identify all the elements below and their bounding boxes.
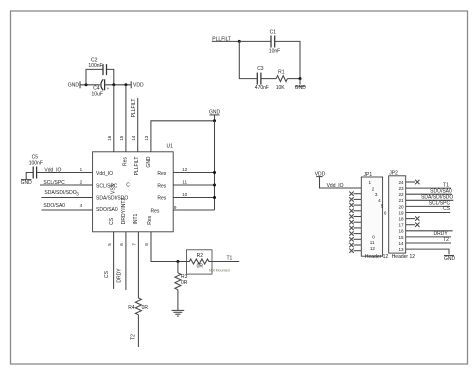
net label SCL/SPC xyxy=(43,180,65,186)
svg-text:5: 5 xyxy=(381,204,384,209)
svg-text:CS: CS xyxy=(104,270,110,278)
wire pin10 xyxy=(173,197,214,199)
svg-text:24: 24 xyxy=(398,180,404,185)
svg-text:U1: U1 xyxy=(167,143,174,149)
node junction PLLFILT xyxy=(238,40,241,43)
power port GND (top middle) xyxy=(209,110,221,121)
svg-text:3: 3 xyxy=(76,192,79,197)
svg-text:Not Mounted: Not Mounted xyxy=(209,269,230,273)
svg-text:T1: T1 xyxy=(443,183,449,189)
pin 2 stub xyxy=(80,180,93,185)
pin 14 number xyxy=(131,135,136,141)
connector JP2 xyxy=(389,170,416,260)
svg-text:9: 9 xyxy=(174,205,177,210)
svg-text:19: 19 xyxy=(398,210,404,215)
svg-text:10: 10 xyxy=(182,192,188,197)
node junction GND tap xyxy=(299,77,302,80)
power port GND (JP2) xyxy=(444,256,456,262)
svg-text:100nF: 100nF xyxy=(29,161,43,167)
wire pin12 xyxy=(173,172,214,174)
node junction pin12 xyxy=(213,171,216,174)
svg-text:SDO/SA0: SDO/SA0 xyxy=(96,207,118,213)
wire net T1 (pin23) xyxy=(406,183,451,189)
svg-text:T2: T2 xyxy=(131,334,137,340)
svg-text:4: 4 xyxy=(80,203,83,208)
wire pin16 drop xyxy=(113,85,115,152)
svg-text:Res: Res xyxy=(150,208,159,214)
op-amp U1 body xyxy=(93,143,174,232)
wire xyxy=(80,84,100,86)
svg-text:SDA/SDI/SDO: SDA/SDI/SDO xyxy=(421,194,453,200)
ground (earth) xyxy=(172,310,185,316)
svg-text:GND: GND xyxy=(444,256,456,262)
svg-text:+: + xyxy=(107,86,110,91)
wire net SCL/SPC xyxy=(40,184,93,186)
svg-text:JP1: JP1 xyxy=(364,172,373,178)
svg-text:VSS: VSS xyxy=(111,183,117,194)
svg-text:R1: R1 xyxy=(278,69,285,75)
svg-text:0: 0 xyxy=(372,235,375,240)
U1 pin name C xyxy=(126,183,130,189)
svg-text:VDD: VDD xyxy=(133,83,144,89)
svg-text:PLLFILT: PLLFILT xyxy=(131,99,137,118)
U1 pin name DRDY/INT2 (bottom) xyxy=(121,198,127,225)
net label CS xyxy=(104,270,110,278)
svg-text:20: 20 xyxy=(398,204,404,209)
capacitor C2 100nF (parallel loop) xyxy=(86,57,114,84)
wire pin11 xyxy=(173,184,214,186)
svg-text:18: 18 xyxy=(398,217,404,222)
svg-text:6: 6 xyxy=(384,210,387,215)
U1 pin name VSS (rotated) xyxy=(111,183,117,194)
node junction R3 tap xyxy=(176,260,179,263)
wire to C1 xyxy=(239,40,271,42)
U1 pin name Res (pin9) xyxy=(150,208,159,214)
svg-text:15: 15 xyxy=(119,135,124,141)
node junction pin10 xyxy=(213,196,216,199)
wire pin15 drop xyxy=(125,85,127,152)
net label T1 xyxy=(226,255,232,261)
wire pin13 to GND rail xyxy=(151,121,215,152)
svg-text:SCL/SPC: SCL/SPC xyxy=(43,180,65,186)
svg-text:GND: GND xyxy=(295,85,307,91)
svg-text:R4: R4 xyxy=(128,305,135,311)
U1 pin name Vdd_IO xyxy=(96,171,113,177)
svg-text:T1: T1 xyxy=(226,255,232,261)
svg-text:C: C xyxy=(126,183,130,189)
svg-text:DRDY: DRDY xyxy=(434,231,449,237)
pin 12 number xyxy=(182,167,188,172)
U1 pin name GND (top) xyxy=(146,156,152,168)
svg-text:Vdd_IO: Vdd_IO xyxy=(44,167,61,173)
capacitor C5 100nF xyxy=(29,154,43,178)
svg-text:CS: CS xyxy=(443,206,451,212)
svg-text:GND: GND xyxy=(68,83,80,89)
pin 3 stub xyxy=(76,192,92,198)
svg-text:Res: Res xyxy=(157,184,166,190)
net label PLLFILT xyxy=(212,36,231,42)
wire net SDO/SA0 xyxy=(41,209,92,211)
pin 8 number xyxy=(144,243,149,246)
svg-text:13: 13 xyxy=(144,135,149,141)
svg-text:1: 1 xyxy=(369,180,372,185)
pin 11 number xyxy=(182,180,187,185)
svg-text:GND: GND xyxy=(21,180,33,186)
svg-text:C1: C1 xyxy=(270,29,277,35)
wire pin13 to GND xyxy=(406,249,449,254)
node junction pin11 xyxy=(213,184,216,187)
svg-text:12: 12 xyxy=(182,167,188,172)
power port GND (PLL) xyxy=(295,79,307,91)
JP2 pin24 stub + X xyxy=(406,180,420,184)
pin 5 number xyxy=(107,243,112,246)
svg-text:DRDY: DRDY xyxy=(117,268,123,283)
svg-text:Res: Res xyxy=(157,171,166,177)
pin 13 number xyxy=(144,135,149,141)
svg-text:0R: 0R xyxy=(197,264,204,270)
svg-text:14: 14 xyxy=(131,135,136,141)
svg-text:8: 8 xyxy=(144,243,149,246)
net label SDO/SA0 xyxy=(43,203,65,209)
power port VDD xyxy=(131,81,144,88)
wire C5 to GND xyxy=(26,173,33,180)
wire R1 to right rail xyxy=(287,78,300,80)
net label T2 xyxy=(131,334,137,340)
wire C3 to R1 xyxy=(261,78,276,80)
svg-text:0R: 0R xyxy=(142,305,149,311)
node junction pin15 tap xyxy=(124,83,127,86)
U1 pin name Res (pin11) xyxy=(157,184,166,190)
svg-text:100nF: 100nF xyxy=(88,63,102,69)
wire net DRDY (pin6) xyxy=(125,232,127,290)
resistor R4 0R xyxy=(128,298,148,315)
JP1 X marks xyxy=(349,192,353,253)
svg-text:10K: 10K xyxy=(276,85,286,91)
svg-text:C3: C3 xyxy=(257,66,264,72)
JP2 pin18 stub + X xyxy=(406,216,420,220)
power port GND (below C5) xyxy=(21,180,33,187)
svg-text:SDO/SA0: SDO/SA0 xyxy=(43,203,65,209)
net label SDA/SDI/SDO xyxy=(44,190,76,196)
svg-text:15: 15 xyxy=(398,235,404,240)
wire down to lower branch xyxy=(239,41,257,78)
svg-text:11: 11 xyxy=(370,240,375,245)
wire R3 to ground xyxy=(177,290,179,311)
pin 9 number xyxy=(174,205,177,210)
svg-text:C5: C5 xyxy=(32,154,39,160)
U1 pin name Res (pin12) xyxy=(157,171,166,177)
svg-text:5: 5 xyxy=(107,243,112,246)
wire xyxy=(105,84,132,86)
svg-text:10nF: 10nF xyxy=(269,49,280,55)
svg-text:14: 14 xyxy=(398,241,404,246)
U1 pin name INT1 (bottom) xyxy=(133,213,139,224)
wire net T2 (pin14) xyxy=(406,237,451,243)
JP1 no-connect stubs pins 2-12 xyxy=(354,194,362,251)
U1 pin name SCL/SPC xyxy=(96,184,118,190)
svg-text:Vdd_IO: Vdd_IO xyxy=(96,171,113,177)
svg-text:GND: GND xyxy=(146,156,152,168)
svg-text:INT1: INT1 xyxy=(133,213,139,224)
wire net SDA/SDI/SDO (pin21) xyxy=(406,194,454,200)
svg-text:470nF: 470nF xyxy=(255,85,269,91)
wire VDD to JP1 pin1 xyxy=(320,177,362,188)
capacitor C4 10uF (polarized) xyxy=(91,79,109,97)
JP2 pin17 stub + X xyxy=(406,223,420,227)
svg-text:CS: CS xyxy=(109,217,115,225)
svg-text:4: 4 xyxy=(378,198,381,203)
power port GND (left of C4) xyxy=(68,81,80,88)
resistor R2 0R (not mounted box) xyxy=(187,250,230,274)
svg-text:Header 12: Header 12 xyxy=(365,254,389,260)
pin 7 number xyxy=(132,243,137,246)
svg-text:10uF: 10uF xyxy=(91,92,102,98)
svg-text:23: 23 xyxy=(398,186,404,191)
node junction left xyxy=(85,83,88,86)
U1 pin name CS (bottom) xyxy=(109,217,115,225)
pin 16 number xyxy=(107,135,112,141)
U1 pin name Res (pin8 bottom) xyxy=(147,215,153,224)
pin 6 number xyxy=(119,243,124,246)
wire pin8 down and right xyxy=(151,232,187,262)
node junction (VDD side) xyxy=(112,83,115,86)
U1 pin name SDO/SA0 xyxy=(96,207,118,213)
svg-text:12: 12 xyxy=(370,246,376,251)
svg-text:SDA/SDI/SDO: SDA/SDI/SDO xyxy=(44,190,76,196)
wire pin14 stub xyxy=(137,98,139,152)
svg-text:11: 11 xyxy=(182,180,187,185)
wire R2 to T1 xyxy=(212,261,239,263)
resistor R3 0R xyxy=(175,262,188,290)
svg-text:6: 6 xyxy=(119,243,124,246)
wire net CS (pin19) xyxy=(406,206,451,212)
wire net SDA/SDI/SDO xyxy=(41,197,92,199)
svg-text:JP2: JP2 xyxy=(389,170,398,176)
svg-text:DRDY/INT2: DRDY/INT2 xyxy=(121,198,127,225)
connector JP1 xyxy=(361,172,388,260)
wire net SCL/SPC (pin20) xyxy=(406,200,451,206)
svg-text:3: 3 xyxy=(375,192,378,197)
wire PLLFILT xyxy=(212,40,239,42)
wire pin7 to R4 xyxy=(137,232,139,298)
wire net Vdd_IO xyxy=(37,172,93,174)
wire GND rail vertical xyxy=(214,121,216,210)
wire net SDO/SA0 (pin22) xyxy=(406,189,452,195)
svg-text:Res: Res xyxy=(157,196,166,202)
svg-text:1: 1 xyxy=(80,167,83,172)
pin 1 stub xyxy=(80,167,93,172)
svg-text:22: 22 xyxy=(398,192,404,197)
svg-text:0R: 0R xyxy=(181,280,188,286)
U1 pin name Res (pin10) xyxy=(157,196,166,202)
pin 4 stub xyxy=(80,203,93,210)
wire pin9 xyxy=(173,209,214,211)
svg-text:7: 7 xyxy=(132,243,137,246)
svg-text:13: 13 xyxy=(398,247,404,252)
svg-text:2: 2 xyxy=(80,180,83,185)
svg-text:Res: Res xyxy=(123,157,129,166)
svg-text:2: 2 xyxy=(372,186,375,191)
svg-text:R2: R2 xyxy=(197,253,204,259)
svg-text:Vdd_IO: Vdd_IO xyxy=(327,183,344,189)
node junction pin13 xyxy=(213,119,216,122)
net label Vdd_IO (JP1) xyxy=(327,183,344,189)
capacitor C1 10nF xyxy=(269,29,280,54)
svg-text:21: 21 xyxy=(398,198,404,203)
wire net CS (pin5) xyxy=(113,232,115,289)
pin 15 number xyxy=(119,135,124,141)
net label PLLFILT (pin14) xyxy=(131,99,137,118)
svg-text:T2: T2 xyxy=(443,237,449,243)
svg-text:PLLFILT: PLLFILT xyxy=(134,157,140,176)
capacitor C3 470nF xyxy=(255,66,269,91)
U1 pin name Res (pin15 top) xyxy=(123,157,129,166)
net label DRDY xyxy=(117,268,123,283)
power port VDD (JP1) xyxy=(315,171,326,177)
JP2 pin numbers xyxy=(398,180,404,252)
resistor R1 10K xyxy=(276,69,288,91)
wire net DRDY (pin15) xyxy=(406,231,451,237)
pin 10 number xyxy=(182,192,188,197)
svg-text:Header 12: Header 12 xyxy=(392,254,416,260)
net label Vdd_IO xyxy=(44,167,61,173)
svg-text:17: 17 xyxy=(398,223,404,228)
wire pin16 xyxy=(406,230,453,232)
svg-text:16: 16 xyxy=(107,135,112,141)
svg-text:Res: Res xyxy=(147,215,153,224)
JP1 pin numbers xyxy=(369,180,387,251)
svg-text:16: 16 xyxy=(398,229,404,234)
U1 pin name PLLFILT (top) xyxy=(134,157,140,176)
U1 pin name SDA/SDI/SDO xyxy=(96,196,128,202)
wire C1 to right rail xyxy=(275,41,300,78)
wire R4 to T2 xyxy=(137,315,139,347)
